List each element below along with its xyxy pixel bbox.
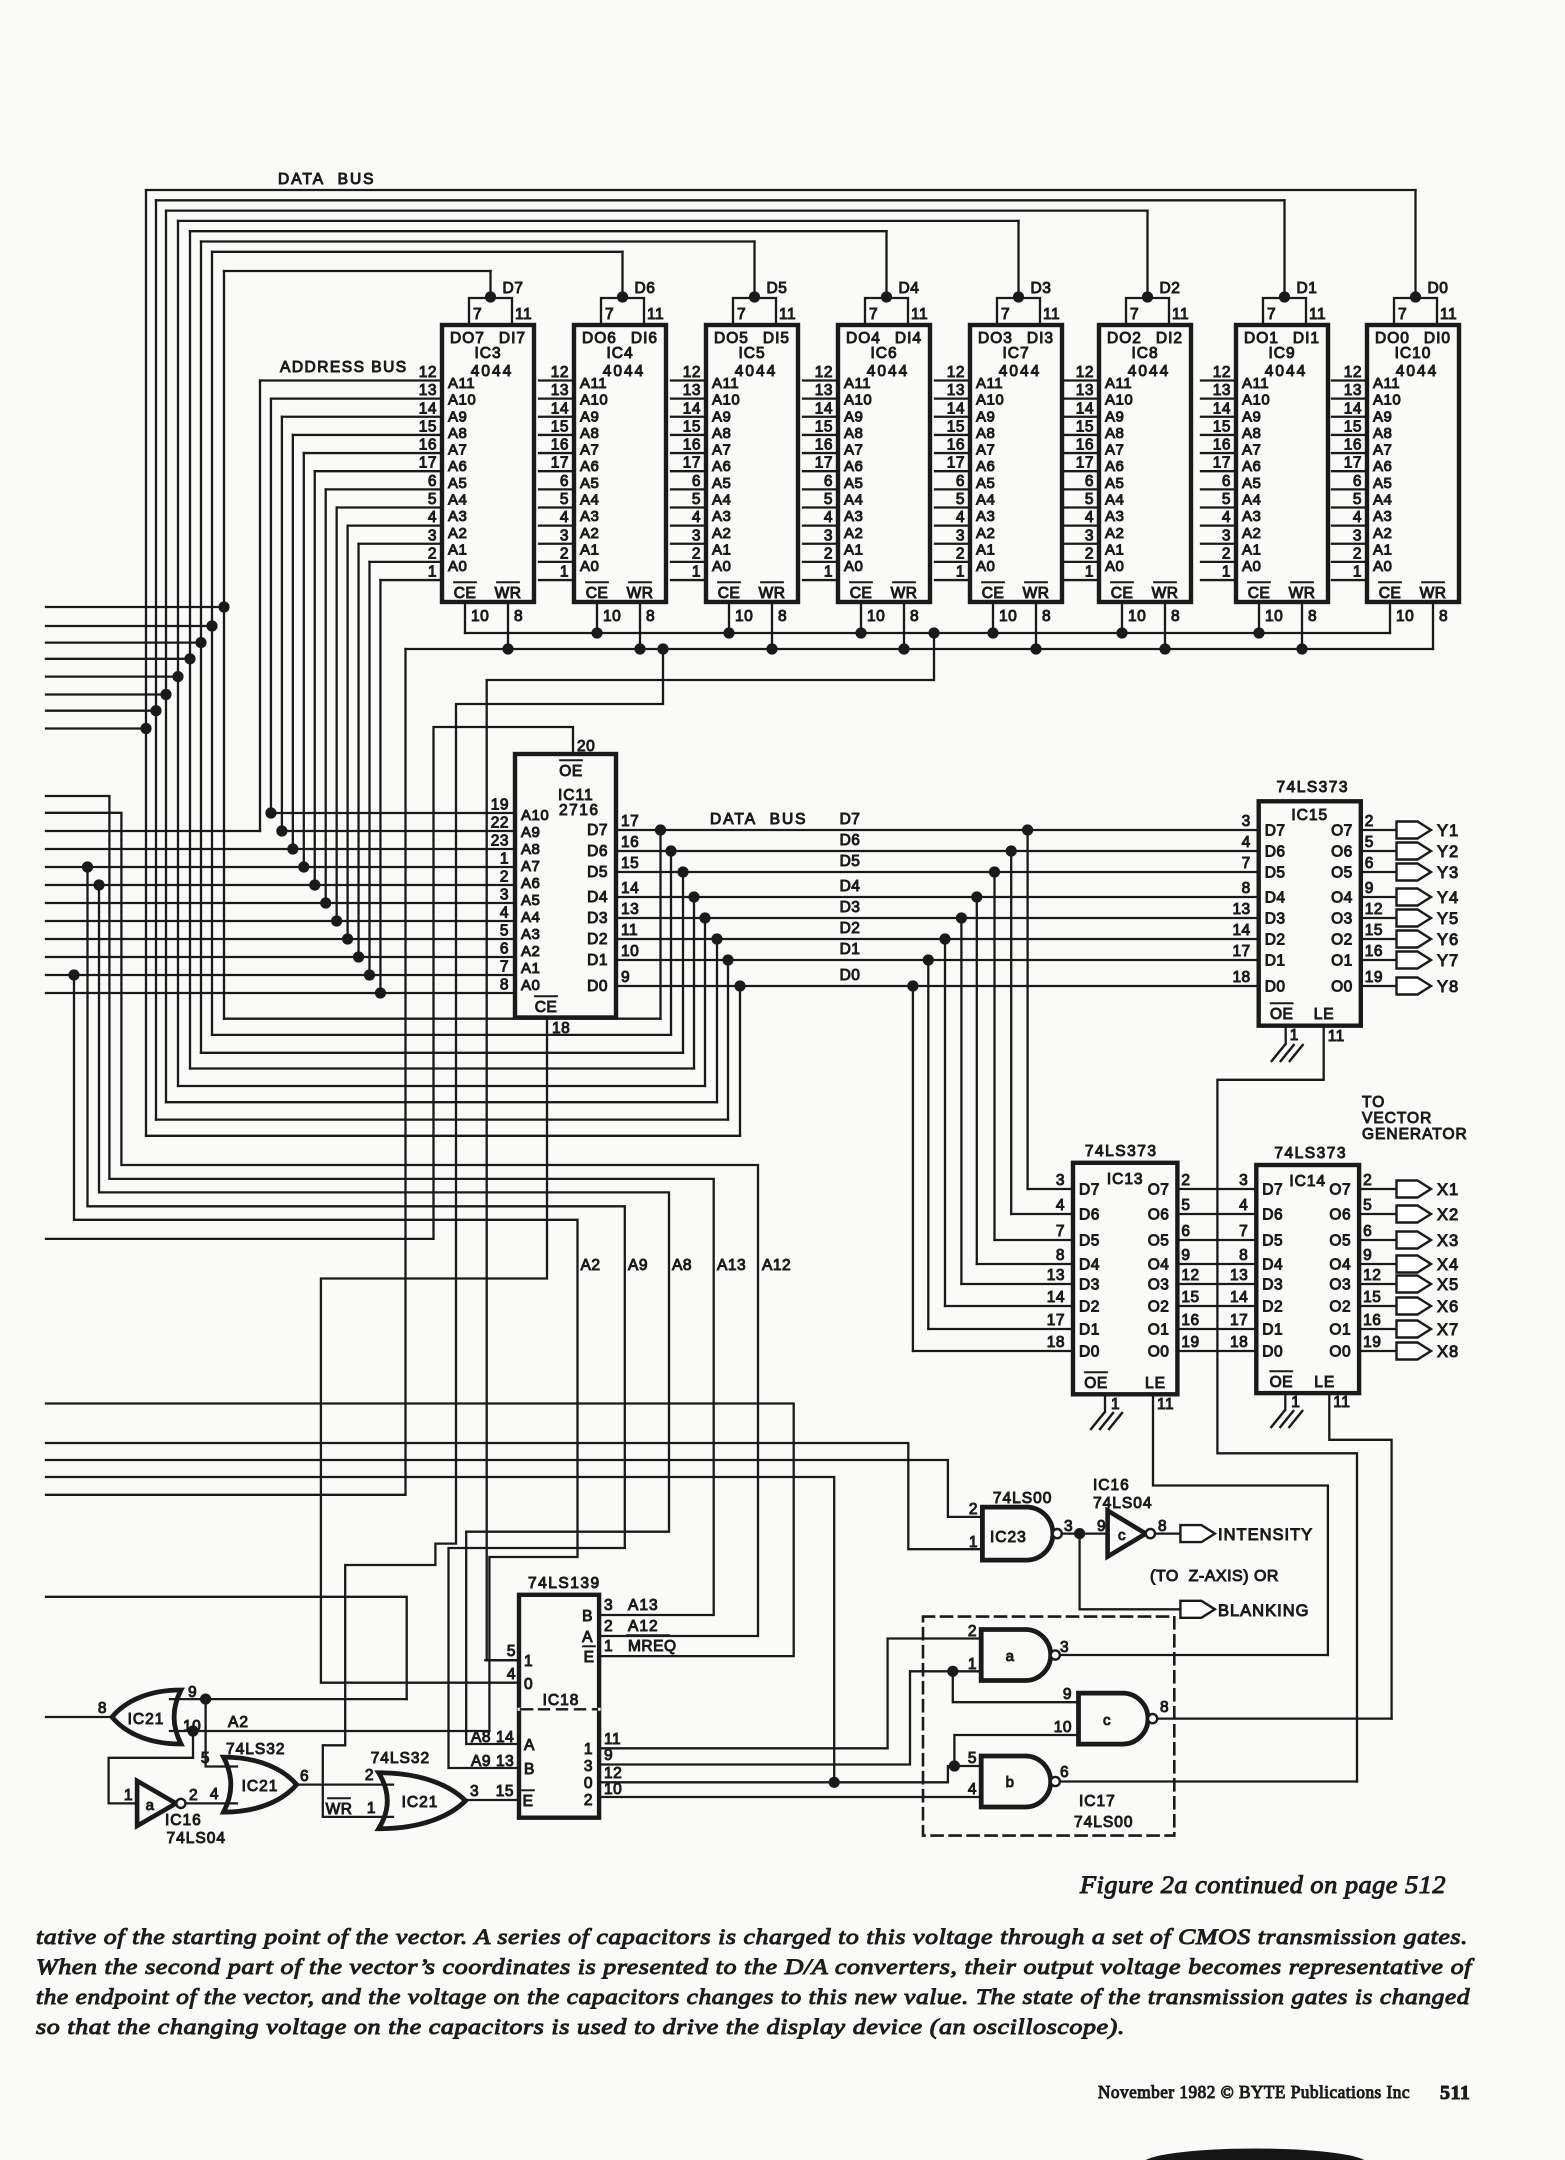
svg-text:A3: A3	[712, 508, 731, 525]
wire data bus D3 net (top)	[178, 220, 1019, 222]
svg-text:5: 5	[1365, 834, 1374, 851]
svg-text:X1: X1	[1437, 1181, 1459, 1199]
svg-text:10: 10	[1396, 608, 1414, 625]
svg-text:WR: WR	[1420, 585, 1447, 602]
svg-text:WR: WR	[1023, 585, 1050, 602]
svg-text:D2: D2	[587, 931, 608, 948]
svg-text:D1: D1	[587, 952, 608, 969]
svg-text:O1: O1	[1329, 1322, 1351, 1339]
svg-text:13: 13	[419, 382, 437, 399]
wire address A2 line to IC11	[46, 956, 515, 958]
wire inverter output to INTENSITY flag	[1155, 1532, 1180, 1534]
memory IC9 4044 RAM	[1236, 325, 1328, 602]
svg-text:10: 10	[735, 608, 753, 625]
svg-text:16: 16	[621, 834, 639, 851]
svg-text:B: B	[582, 1608, 593, 1625]
svg-text:A7: A7	[521, 858, 540, 875]
output flag Y2	[1397, 843, 1432, 860]
svg-text:D1: D1	[1297, 280, 1318, 297]
svg-text:A11: A11	[1105, 375, 1132, 392]
svg-text:A1: A1	[976, 541, 995, 558]
svg-text:A10: A10	[580, 392, 608, 409]
svg-text:2: 2	[1353, 545, 1362, 562]
svg-text:A7: A7	[1105, 442, 1124, 459]
svg-text:17: 17	[551, 455, 569, 472]
svg-text:WR: WR	[627, 585, 654, 602]
svg-text:14: 14	[1344, 400, 1362, 417]
wire IC21b output to IC21c pin 2	[297, 1783, 393, 1785]
svg-text:D2: D2	[1265, 932, 1286, 949]
wire WR rail left drop to page edge	[46, 649, 406, 1495]
svg-text:23: 23	[491, 833, 509, 850]
svg-text:D5: D5	[587, 864, 608, 881]
svg-text:A0: A0	[844, 558, 863, 575]
svg-text:2: 2	[1363, 1172, 1372, 1189]
svg-text:D6: D6	[587, 843, 608, 860]
svg-text:6: 6	[1085, 473, 1094, 490]
wire spare bus line y796	[46, 796, 714, 1615]
svg-text:O7: O7	[1329, 1182, 1351, 1199]
svg-text:WR: WR	[1152, 585, 1179, 602]
IC8 data pins 7/11 connector	[1126, 298, 1169, 325]
svg-text:16: 16	[551, 437, 569, 454]
svg-text:A13: A13	[628, 1597, 659, 1614]
svg-text:A11: A11	[1373, 375, 1400, 392]
wire tap A6 line down (A9 select)	[82, 861, 93, 872]
svg-text:6: 6	[692, 473, 701, 490]
svg-text:3: 3	[604, 1597, 613, 1614]
svg-text:3: 3	[1242, 813, 1251, 830]
svg-text:8: 8	[1242, 880, 1251, 897]
svg-text:IC8: IC8	[1131, 345, 1158, 362]
svg-text:A6: A6	[580, 458, 599, 475]
svg-text:6: 6	[500, 941, 509, 958]
svg-text:11: 11	[1157, 1396, 1174, 1413]
svg-text:2: 2	[604, 1618, 613, 1635]
svg-text:12: 12	[947, 364, 965, 381]
svg-text:11: 11	[1333, 1394, 1350, 1411]
svg-text:4: 4	[1056, 1197, 1065, 1214]
svg-text:2: 2	[824, 545, 833, 562]
svg-text:O3: O3	[1329, 1277, 1351, 1294]
svg-text:14: 14	[551, 400, 569, 417]
svg-text:9: 9	[604, 1747, 613, 1764]
wire IC21c output to IC18 E	[466, 1799, 520, 1801]
svg-text:2: 2	[692, 545, 701, 562]
svg-text:INTENSITY: INTENSITY	[1218, 1526, 1313, 1544]
svg-text:A6: A6	[448, 458, 467, 475]
svg-text:8: 8	[1056, 1247, 1065, 1264]
svg-text:15: 15	[1076, 418, 1094, 435]
svg-text:A2: A2	[844, 525, 863, 542]
IC9 address pins	[1201, 379, 1236, 381]
svg-text:3: 3	[1085, 527, 1094, 544]
svg-text:4: 4	[968, 1781, 977, 1798]
svg-text:8: 8	[1239, 1247, 1248, 1264]
svg-text:16: 16	[1344, 437, 1362, 454]
svg-text:A11: A11	[448, 375, 475, 392]
svg-text:O2: O2	[1331, 932, 1353, 949]
wire address A3 line to IC11	[46, 938, 515, 940]
svg-text:3: 3	[470, 1783, 479, 1800]
svg-text:D1: D1	[1079, 1322, 1100, 1339]
svg-text:A1: A1	[712, 541, 731, 558]
svg-text:6: 6	[1060, 1764, 1069, 1781]
svg-text:18: 18	[1230, 1334, 1248, 1351]
svg-text:11: 11	[621, 922, 638, 939]
svg-text:2: 2	[428, 545, 437, 562]
svg-text:3: 3	[428, 527, 437, 544]
wire address A1 line to IC11	[46, 974, 515, 976]
svg-text:DI5: DI5	[763, 330, 790, 347]
svg-text:11: 11	[647, 306, 664, 323]
svg-text:O5: O5	[1331, 865, 1353, 882]
IC4 address pins	[539, 379, 574, 381]
svg-text:4: 4	[560, 509, 569, 526]
svg-text:13: 13	[1232, 901, 1250, 918]
svg-text:12: 12	[683, 364, 701, 381]
svg-text:A4: A4	[712, 491, 731, 508]
svg-text:2716: 2716	[559, 802, 599, 819]
svg-text:A3: A3	[1105, 508, 1124, 525]
svg-text:BLANKING: BLANKING	[1218, 1602, 1309, 1620]
svg-text:O7: O7	[1148, 1182, 1170, 1199]
svg-text:A: A	[582, 1629, 593, 1646]
svg-text:8: 8	[1308, 608, 1317, 625]
svg-text:10: 10	[1054, 1719, 1072, 1736]
svg-text:LE: LE	[1314, 1006, 1335, 1023]
svg-text:10: 10	[1128, 608, 1146, 625]
wire data bus D1 line IC11 to IC15	[616, 959, 1259, 961]
svg-text:1: 1	[1222, 564, 1231, 581]
svg-text:IC13: IC13	[1107, 1171, 1144, 1188]
svg-text:11: 11	[911, 306, 928, 323]
output flag Y3	[1397, 864, 1432, 881]
ground at IC14 pin 1	[1271, 1411, 1284, 1427]
svg-text:D0: D0	[1428, 280, 1449, 297]
svg-text:O4: O4	[1148, 1257, 1170, 1274]
svg-text:5: 5	[1085, 491, 1094, 508]
svg-text:a: a	[146, 1797, 155, 1814]
svg-text:Y3: Y3	[1437, 864, 1459, 882]
svg-text:19: 19	[491, 797, 509, 814]
svg-text:A0: A0	[976, 558, 995, 575]
svg-text:A9: A9	[1105, 408, 1124, 425]
svg-text:A8: A8	[521, 841, 540, 858]
svg-text:11: 11	[1172, 306, 1189, 323]
wire address A0 line to IC3	[380, 579, 442, 581]
svg-text:12: 12	[604, 1765, 622, 1782]
svg-text:E: E	[584, 1649, 595, 1666]
svg-text:LE: LE	[1145, 1375, 1166, 1392]
svg-text:16: 16	[1213, 437, 1231, 454]
svg-text:74LS32: 74LS32	[371, 1750, 430, 1767]
IC18 divider dashed	[521, 1708, 597, 1710]
svg-text:A10: A10	[1105, 392, 1133, 409]
svg-text:D6: D6	[1079, 1207, 1100, 1224]
wire data bus D4 line IC11 to IC15	[616, 896, 1259, 898]
svg-text:1: 1	[1111, 1396, 1120, 1413]
wire IC21a output to page-left	[46, 1716, 112, 1718]
svg-text:A4: A4	[1373, 491, 1392, 508]
svg-text:A7: A7	[448, 442, 467, 459]
svg-text:7: 7	[473, 306, 482, 323]
svg-text:D3: D3	[840, 899, 861, 916]
wire spare bus line y812 to A12 select	[46, 813, 758, 1636]
svg-text:O4: O4	[1331, 890, 1353, 907]
svg-text:13: 13	[947, 382, 965, 399]
svg-text:9: 9	[621, 969, 630, 986]
IC5 data pins 7/11 connector	[733, 298, 776, 325]
svg-text:(TO Z-AXIS) OR: (TO Z-AXIS) OR	[1150, 1568, 1279, 1585]
svg-text:2: 2	[1085, 545, 1094, 562]
svg-text:A0: A0	[712, 558, 731, 575]
svg-text:13: 13	[1213, 382, 1231, 399]
svg-text:DI1: DI1	[1293, 330, 1320, 347]
svg-text:A11: A11	[712, 375, 739, 392]
svg-text:5: 5	[956, 491, 965, 508]
svg-text:7: 7	[605, 306, 614, 323]
svg-text:A4: A4	[448, 491, 467, 508]
svg-text:5: 5	[507, 1643, 516, 1660]
svg-text:IC10: IC10	[1395, 345, 1432, 362]
svg-text:O1: O1	[1148, 1322, 1170, 1339]
wire address A7 line to IC11	[46, 866, 515, 868]
svg-text:Y7: Y7	[1437, 952, 1459, 970]
svg-text:A8: A8	[580, 425, 599, 442]
svg-text:1: 1	[367, 1800, 376, 1817]
svg-text:17: 17	[621, 813, 639, 830]
svg-text:O1: O1	[1331, 953, 1353, 970]
wire address A2 line to IC3	[359, 543, 442, 545]
svg-text:6: 6	[824, 473, 833, 490]
svg-text:16: 16	[683, 437, 701, 454]
svg-text:A9: A9	[448, 408, 467, 425]
wire IC17c output to IC14 LE	[1157, 1717, 1391, 1719]
svg-text:A7: A7	[976, 442, 995, 459]
svg-text:2: 2	[584, 1792, 593, 1809]
svg-text:A10: A10	[521, 807, 549, 824]
svg-text:D0: D0	[1265, 979, 1286, 996]
wire IC13 O2 to IC14 D2	[1177, 1305, 1256, 1307]
svg-text:OE: OE	[559, 763, 582, 780]
svg-text:1: 1	[1353, 564, 1362, 581]
wire tap A1 line down (A2 select)	[68, 969, 79, 980]
svg-text:15: 15	[683, 418, 701, 435]
svg-text:WR: WR	[495, 585, 522, 602]
svg-text:15: 15	[947, 418, 965, 435]
svg-text:A12: A12	[762, 1257, 791, 1274]
svg-text:2: 2	[189, 1787, 198, 1804]
svg-text:7: 7	[1130, 306, 1139, 323]
svg-text:6: 6	[1365, 855, 1374, 872]
svg-text:D7: D7	[840, 811, 861, 828]
svg-text:D5: D5	[767, 280, 788, 297]
svg-text:4: 4	[1239, 1197, 1248, 1214]
svg-text:A2: A2	[580, 525, 599, 542]
svg-text:IC21: IC21	[402, 1794, 439, 1811]
svg-text:IC16: IC16	[165, 1812, 202, 1829]
svg-text:D2: D2	[1079, 1299, 1100, 1316]
svg-text:3: 3	[584, 1758, 593, 1775]
svg-text:IC16: IC16	[1093, 1477, 1130, 1494]
output flag BLANKING	[1180, 1601, 1215, 1618]
svg-text:12: 12	[815, 364, 833, 381]
svg-text:11: 11	[1043, 306, 1060, 323]
svg-text:15: 15	[496, 1783, 514, 1800]
wire IC13 feed risers	[1022, 824, 1033, 835]
svg-text:D5: D5	[840, 853, 861, 870]
svg-text:A7: A7	[580, 442, 599, 459]
svg-text:D1: D1	[1265, 953, 1286, 970]
svg-text:A5: A5	[448, 475, 467, 492]
svg-text:D7: D7	[503, 280, 524, 297]
svg-text:D4: D4	[1265, 890, 1286, 907]
svg-text:IC15: IC15	[1291, 807, 1328, 824]
svg-text:13: 13	[1076, 382, 1094, 399]
svg-text:O7: O7	[1331, 823, 1353, 840]
svg-text:IC5: IC5	[738, 345, 765, 362]
svg-text:A11: A11	[976, 375, 1003, 392]
output flag Y4	[1397, 889, 1432, 906]
wire A11 exit to page-left	[46, 830, 260, 832]
svg-text:12: 12	[1213, 364, 1231, 381]
svg-text:A: A	[524, 1737, 535, 1754]
svg-text:A1: A1	[1242, 541, 1261, 558]
wire IC18 out 10 to gate b pin 4	[599, 1796, 981, 1798]
svg-text:A0: A0	[1373, 558, 1392, 575]
svg-text:5: 5	[1181, 1197, 1190, 1214]
svg-text:A8: A8	[1242, 425, 1261, 442]
svg-text:4: 4	[692, 509, 701, 526]
svg-text:O6: O6	[1148, 1207, 1170, 1224]
svg-text:1: 1	[500, 851, 509, 868]
svg-text:A0: A0	[580, 558, 599, 575]
svg-text:A3: A3	[521, 926, 540, 943]
wire data bus D2 net (top)	[166, 209, 1148, 211]
svg-text:c: c	[1103, 1712, 1111, 1729]
svg-text:A9: A9	[1242, 408, 1261, 425]
svg-text:A7: A7	[844, 442, 863, 459]
svg-text:15: 15	[1181, 1289, 1199, 1306]
svg-text:14: 14	[1047, 1289, 1065, 1306]
svg-text:12: 12	[1365, 901, 1383, 918]
svg-text:A11: A11	[844, 375, 871, 392]
wire WR rail under memory ICs	[406, 648, 1434, 650]
svg-text:2: 2	[500, 869, 509, 886]
svg-text:13: 13	[1344, 382, 1362, 399]
wire address A1 line to IC3	[370, 561, 443, 563]
svg-text:A5: A5	[580, 475, 599, 492]
svg-text:10: 10	[621, 943, 639, 960]
wire IC13 O3 to IC14 D3	[1177, 1283, 1256, 1285]
svg-text:4: 4	[956, 509, 965, 526]
svg-text:A0: A0	[521, 977, 540, 994]
wire address A7 line to IC3	[304, 452, 442, 454]
svg-text:IC17: IC17	[1079, 1793, 1116, 1810]
svg-text:WR: WR	[326, 1801, 353, 1818]
svg-text:IC14: IC14	[1289, 1173, 1326, 1190]
output flag Y1	[1397, 822, 1432, 839]
svg-text:X5: X5	[1437, 1276, 1459, 1294]
svg-text:A10: A10	[844, 392, 872, 409]
svg-text:1: 1	[1085, 564, 1094, 581]
svg-text:2: 2	[1181, 1172, 1190, 1189]
svg-text:6: 6	[1363, 1223, 1372, 1240]
svg-text:16: 16	[1076, 437, 1094, 454]
svg-text:so that the changing voltage o: so that the changing voltage on the capa…	[36, 2014, 1125, 2039]
svg-text:8: 8	[98, 1700, 107, 1717]
svg-text:O3: O3	[1331, 911, 1353, 928]
svg-text:74LS00: 74LS00	[1074, 1814, 1133, 1831]
svg-text:A5: A5	[844, 475, 863, 492]
svg-text:A11: A11	[580, 375, 607, 392]
svg-text:19: 19	[1181, 1334, 1199, 1351]
svg-text:A4: A4	[844, 491, 863, 508]
svg-text:D3: D3	[1262, 1277, 1283, 1294]
IC10 address pins	[1332, 379, 1367, 381]
OR gate IC21a (output pin 8, mirrored)	[112, 1690, 181, 1744]
svg-text:O6: O6	[1331, 844, 1353, 861]
svg-text:7: 7	[1001, 306, 1010, 323]
svg-text:1: 1	[824, 564, 833, 581]
svg-text:6: 6	[428, 473, 437, 490]
wire data bus D0 net (top)	[146, 189, 1416, 191]
wire IC18 out 12 to gate b pin 5 and gate c pin 10	[599, 1766, 981, 1782]
svg-text:4: 4	[428, 509, 437, 526]
svg-text:A6: A6	[1242, 458, 1261, 475]
svg-text:A0: A0	[1242, 558, 1261, 575]
svg-text:A2: A2	[448, 525, 467, 542]
IC9 data pins 7/11 connector	[1263, 298, 1306, 325]
svg-text:A5: A5	[1373, 475, 1392, 492]
svg-text:4: 4	[1222, 509, 1231, 526]
svg-text:2: 2	[1222, 545, 1231, 562]
wire address A9 line to IC3	[282, 416, 442, 418]
svg-text:3: 3	[1239, 1172, 1248, 1189]
svg-text:1: 1	[428, 564, 437, 581]
ground at IC15 pin 1	[1272, 1045, 1285, 1061]
svg-text:4044: 4044	[867, 363, 909, 380]
IC4 data pins 7/11 connector	[601, 298, 644, 325]
svg-text:7: 7	[1398, 306, 1407, 323]
svg-text:17: 17	[419, 455, 437, 472]
svg-text:DI6: DI6	[631, 330, 658, 347]
svg-text:A5: A5	[712, 475, 731, 492]
svg-text:20: 20	[577, 738, 595, 755]
svg-text:7: 7	[500, 959, 509, 976]
svg-text:D6: D6	[840, 832, 861, 849]
svg-text:18: 18	[1047, 1334, 1065, 1351]
svg-text:D4: D4	[840, 878, 861, 895]
output flag Y6	[1397, 931, 1432, 948]
svg-text:9: 9	[1097, 1518, 1106, 1535]
svg-text:D1: D1	[840, 941, 861, 958]
svg-text:A4: A4	[580, 491, 599, 508]
svg-text:17: 17	[1076, 455, 1094, 472]
svg-text:3: 3	[956, 527, 965, 544]
svg-text:MREQ: MREQ	[628, 1638, 677, 1655]
svg-text:14: 14	[947, 400, 965, 417]
svg-text:1: 1	[604, 1638, 613, 1655]
svg-text:Y6: Y6	[1437, 931, 1459, 949]
svg-text:A3: A3	[448, 508, 467, 525]
svg-text:November 1982 © BYTE Publicati: November 1982 © BYTE Publications Inc	[1098, 2082, 1410, 2102]
svg-text:B: B	[524, 1761, 535, 1778]
svg-text:17: 17	[815, 455, 833, 472]
svg-text:D0: D0	[1079, 1344, 1100, 1361]
svg-text:15: 15	[815, 418, 833, 435]
